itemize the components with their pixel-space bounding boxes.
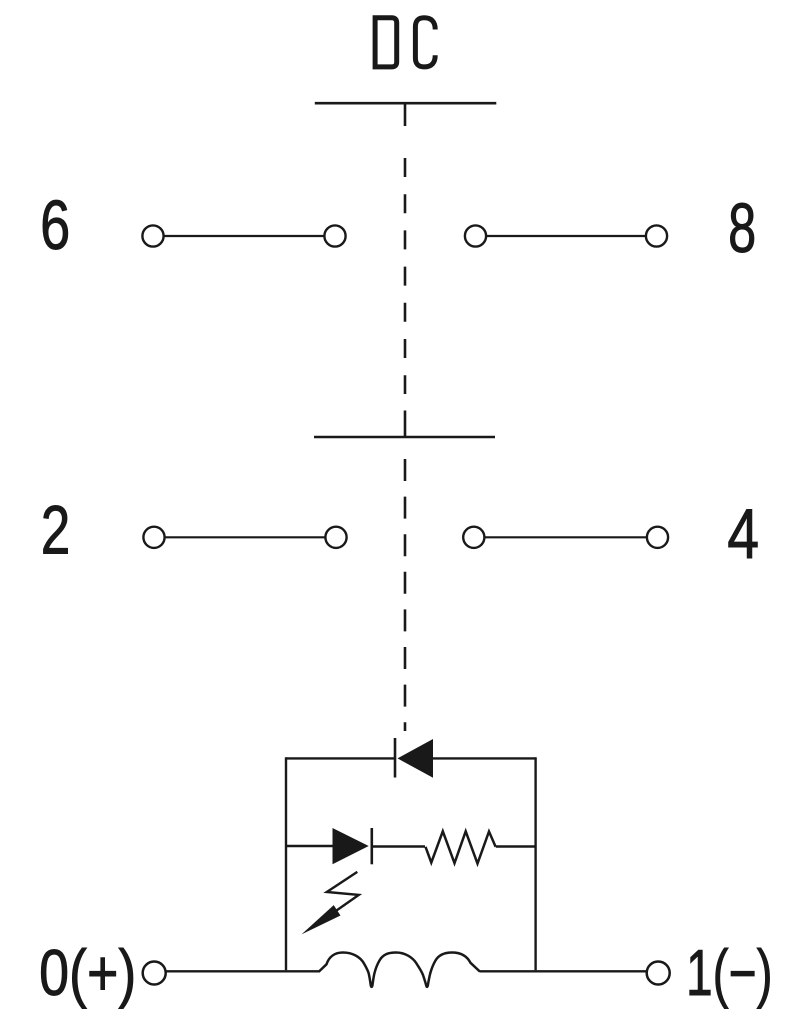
pin 2 label <box>41 492 71 569</box>
terminal circle 2 <box>143 527 164 548</box>
wire left vertical <box>285 757 287 970</box>
terminal circle row2 right-inner <box>463 527 484 548</box>
wire contact 6 <box>165 235 324 237</box>
dashed linkage lower <box>404 459 407 731</box>
actuator bar top <box>315 102 497 105</box>
terminal circle row1 right-inner <box>465 225 486 246</box>
resistor R <box>426 831 496 863</box>
LED D2 triangle <box>333 828 369 864</box>
diode D1 cathode bar <box>394 738 397 778</box>
light emission bolt <box>327 872 359 911</box>
svg-text:6: 6 <box>40 188 70 265</box>
terminal circle 6 <box>142 225 163 246</box>
svg-text:1(−): 1(−) <box>686 938 773 1009</box>
diode D1 triangle <box>398 739 434 778</box>
svg-text:0(+): 0(+) <box>39 936 136 1009</box>
wire top branch right <box>433 757 536 759</box>
svg-text:2: 2 <box>41 492 71 569</box>
wire contact 2 <box>166 536 325 538</box>
wire contact 4 <box>485 536 646 538</box>
wire bottom left <box>166 970 320 972</box>
pin 6 label <box>40 188 70 265</box>
label DC <box>375 18 435 67</box>
pin 0(+) label <box>39 936 136 1009</box>
terminal circle 1 <box>647 962 670 985</box>
terminal circle row1 left-inner <box>324 225 345 246</box>
actuator bar middle <box>314 436 495 439</box>
svg-text:4: 4 <box>727 494 759 573</box>
wire middle to resistor <box>372 845 425 847</box>
actuator stem top <box>404 103 407 126</box>
actuator stem middle <box>404 411 407 438</box>
wire contact 8 <box>487 235 645 237</box>
wire bottom right <box>480 970 647 972</box>
terminal circle 0 <box>143 962 166 985</box>
pin 4 label <box>727 494 759 573</box>
relay coil L <box>319 953 480 987</box>
wire top branch left <box>286 757 394 759</box>
LED D2 cathode bar <box>370 828 373 864</box>
pin 8 label <box>728 189 756 267</box>
wire resistor to right vertical <box>496 845 536 847</box>
wire right vertical <box>534 757 536 970</box>
dashed linkage upper <box>404 158 407 394</box>
wire middle branch left <box>286 845 333 847</box>
pin 1(-) label <box>686 938 773 1009</box>
terminal circle 4 <box>647 527 668 548</box>
svg-text:8: 8 <box>728 189 756 267</box>
terminal circle 8 <box>646 225 667 246</box>
light emission arrowhead <box>302 905 341 934</box>
terminal circle row2 left-inner <box>325 527 346 548</box>
